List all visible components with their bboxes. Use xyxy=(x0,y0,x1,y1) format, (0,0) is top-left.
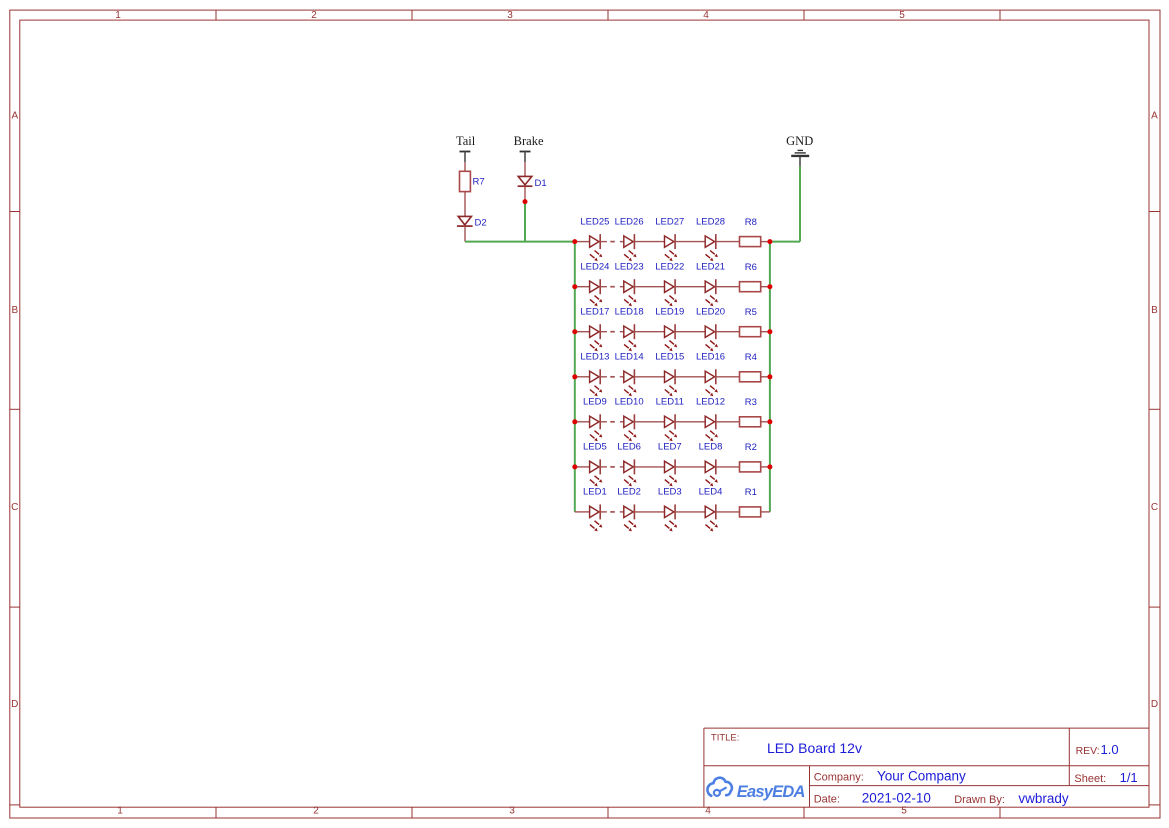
LED LED13 xyxy=(575,352,610,397)
svg-text:R6: R6 xyxy=(745,262,757,273)
LED LED27 xyxy=(655,216,705,261)
junction xyxy=(572,329,577,334)
svg-text:LED4: LED4 xyxy=(699,487,723,498)
svg-text:C: C xyxy=(1151,502,1158,513)
svg-text:A: A xyxy=(11,111,18,122)
LED LED4 xyxy=(699,487,740,532)
wire dash segment xyxy=(610,466,615,468)
LED LED1 xyxy=(575,487,607,532)
junction xyxy=(767,419,772,424)
resistor R4 xyxy=(740,352,770,382)
resistor R7 xyxy=(460,162,485,216)
svg-text:LED3: LED3 xyxy=(658,487,682,498)
svg-text:LED27: LED27 xyxy=(655,216,684,227)
svg-text:LED26: LED26 xyxy=(615,216,644,227)
svg-text:D1: D1 xyxy=(535,178,547,189)
svg-text:Sheet:: Sheet: xyxy=(1074,773,1106,785)
svg-text:EasyEDA: EasyEDA xyxy=(737,783,805,801)
net port Brake xyxy=(514,134,544,162)
wire left rail xyxy=(574,242,576,512)
resistor R1 xyxy=(740,487,770,517)
wire GND link vertical xyxy=(799,166,801,241)
svg-text:1.0: 1.0 xyxy=(1101,742,1119,757)
svg-text:R3: R3 xyxy=(745,397,757,408)
LED LED11 xyxy=(656,397,706,442)
LED LED5 xyxy=(575,442,607,487)
resistor R8 xyxy=(740,217,770,247)
LED LED12 xyxy=(696,397,740,442)
svg-text:LED24: LED24 xyxy=(580,261,609,272)
EasyEDA logo xyxy=(707,778,804,802)
svg-text:LED7: LED7 xyxy=(658,442,682,453)
LED LED24 xyxy=(575,261,610,306)
wire dash segment xyxy=(610,511,615,513)
LED LED15 xyxy=(655,352,705,397)
svg-text:LED28: LED28 xyxy=(696,216,725,227)
svg-text:LED21: LED21 xyxy=(696,261,725,272)
svg-text:2021-02-10: 2021-02-10 xyxy=(862,790,931,805)
svg-text:LED Board 12v: LED Board 12v xyxy=(767,740,862,756)
LED LED21 xyxy=(696,261,740,306)
svg-text:LED9: LED9 xyxy=(583,397,607,408)
junction xyxy=(767,284,772,289)
LED LED6 xyxy=(617,442,664,487)
LED LED10 xyxy=(615,397,665,442)
junction xyxy=(572,419,577,424)
LED LED9 xyxy=(575,397,607,442)
LED LED2 xyxy=(617,487,664,532)
wire dash segment xyxy=(610,421,615,423)
svg-text:LED8: LED8 xyxy=(699,442,723,453)
svg-text:B: B xyxy=(1151,305,1158,316)
svg-text:R1: R1 xyxy=(745,487,757,498)
svg-text:D2: D2 xyxy=(475,217,487,228)
LED LED26 xyxy=(615,216,665,261)
svg-text:5: 5 xyxy=(899,10,905,21)
svg-text:D: D xyxy=(11,699,18,710)
svg-text:LED6: LED6 xyxy=(617,442,641,453)
svg-text:C: C xyxy=(11,502,18,513)
diode D2 xyxy=(457,216,487,241)
svg-text:3: 3 xyxy=(507,10,513,21)
net port Tail xyxy=(456,134,476,162)
wire dash segment xyxy=(610,286,615,288)
LED LED20 xyxy=(696,306,740,351)
junction xyxy=(572,374,577,379)
svg-text:LED1: LED1 xyxy=(583,487,607,498)
svg-text:LED10: LED10 xyxy=(615,397,644,408)
svg-text:Brake: Brake xyxy=(514,134,544,148)
svg-text:4: 4 xyxy=(703,10,709,21)
junction xyxy=(767,374,772,379)
LED LED17 xyxy=(575,306,610,351)
svg-text:A: A xyxy=(1151,111,1158,122)
svg-text:LED16: LED16 xyxy=(696,352,725,363)
svg-text:R4: R4 xyxy=(745,352,757,363)
svg-text:2: 2 xyxy=(313,806,319,817)
LED LED14 xyxy=(615,352,665,397)
junction xyxy=(767,464,772,469)
LED LED22 xyxy=(655,261,705,306)
LED LED19 xyxy=(655,306,705,351)
wire dash segment xyxy=(610,241,615,243)
svg-text:Your Company: Your Company xyxy=(877,768,966,783)
svg-text:3: 3 xyxy=(509,806,515,817)
junction xyxy=(572,284,577,289)
wire GND link horizontal xyxy=(770,241,800,243)
junction xyxy=(767,329,772,334)
svg-text:LED14: LED14 xyxy=(615,352,644,363)
svg-text:LED13: LED13 xyxy=(580,352,609,363)
LED LED25 xyxy=(575,216,610,261)
resistor R2 xyxy=(740,442,770,472)
wire dash segment xyxy=(610,331,615,333)
svg-text:R7: R7 xyxy=(473,176,485,187)
svg-text:D: D xyxy=(1151,699,1158,710)
svg-text:B: B xyxy=(11,305,18,316)
svg-text:R5: R5 xyxy=(745,307,757,318)
svg-text:LED15: LED15 xyxy=(655,352,684,363)
svg-text:LED23: LED23 xyxy=(615,261,644,272)
LED LED18 xyxy=(615,306,665,351)
svg-text:REV:: REV: xyxy=(1076,745,1100,757)
svg-text:Tail: Tail xyxy=(456,134,476,148)
svg-text:TITLE:: TITLE: xyxy=(711,733,740,744)
svg-text:4: 4 xyxy=(705,806,711,817)
LED LED23 xyxy=(615,261,665,306)
svg-text:LED20: LED20 xyxy=(696,306,725,317)
svg-text:R8: R8 xyxy=(745,217,757,228)
svg-text:1/1: 1/1 xyxy=(1120,770,1138,785)
LED LED28 xyxy=(696,216,740,261)
diode D1 xyxy=(518,162,547,202)
LED LED8 xyxy=(699,442,740,487)
wire right rail xyxy=(769,242,771,512)
junction xyxy=(572,464,577,469)
svg-text:LED12: LED12 xyxy=(696,397,725,408)
wire dash segment xyxy=(610,376,615,378)
svg-text:LED18: LED18 xyxy=(615,306,644,317)
junction xyxy=(523,199,528,204)
resistor R3 xyxy=(740,397,770,427)
svg-text:Company:: Company: xyxy=(814,771,864,783)
svg-text:vwbrady: vwbrady xyxy=(1018,791,1069,806)
junction xyxy=(572,239,577,244)
junction xyxy=(767,239,772,244)
wire Brake drop xyxy=(524,202,526,242)
LED LED16 xyxy=(696,352,740,397)
svg-text:LED17: LED17 xyxy=(580,306,609,317)
svg-text:LED19: LED19 xyxy=(655,306,684,317)
svg-text:1: 1 xyxy=(115,10,121,21)
wire Tail/Brake feed xyxy=(465,241,575,243)
svg-text:GND: GND xyxy=(786,134,813,148)
svg-text:LED5: LED5 xyxy=(583,442,607,453)
svg-text:LED2: LED2 xyxy=(617,487,641,498)
svg-text:1: 1 xyxy=(117,806,123,817)
svg-text:5: 5 xyxy=(901,806,907,817)
ground GND xyxy=(786,134,813,167)
resistor R6 xyxy=(740,262,770,292)
resistor R5 xyxy=(740,307,770,337)
svg-text:Drawn By:: Drawn By: xyxy=(954,794,1005,806)
svg-text:2: 2 xyxy=(311,10,317,21)
svg-text:LED25: LED25 xyxy=(580,216,609,227)
svg-text:R2: R2 xyxy=(745,442,757,453)
title block xyxy=(704,728,1149,807)
svg-text:Date:: Date: xyxy=(814,793,840,805)
LED LED7 xyxy=(658,442,705,487)
svg-text:LED11: LED11 xyxy=(656,397,684,408)
svg-text:LED22: LED22 xyxy=(655,261,684,272)
LED LED3 xyxy=(658,487,705,532)
